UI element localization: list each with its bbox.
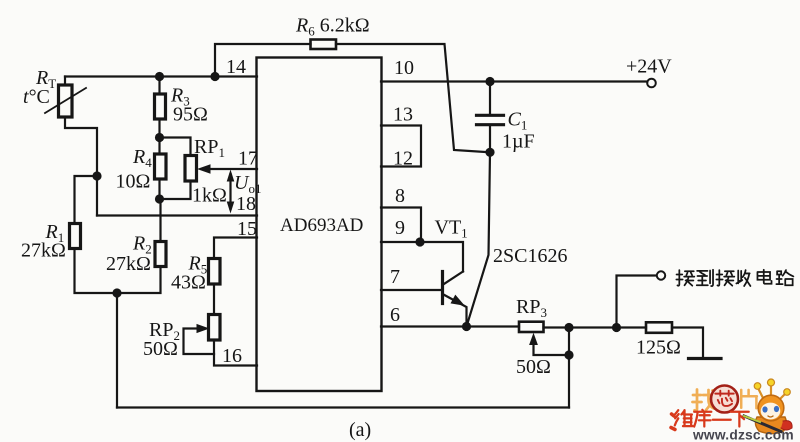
svg-text:9: 9: [395, 217, 405, 239]
resistor R1: [70, 224, 81, 249]
svg-text:50Ω: 50Ω: [516, 356, 551, 378]
svg-text:18: 18: [236, 193, 256, 215]
watermark 找芯片 seal: [693, 386, 757, 413]
node junction R1 bottom: [112, 288, 121, 297]
wire pin15: [214, 238, 257, 259]
svg-text:10Ω: 10Ω: [116, 171, 151, 193]
svg-text:C1: C1: [508, 109, 528, 133]
potentiometer RP2: [209, 315, 221, 341]
node junction R6 branch: [210, 72, 219, 81]
potentiometer RP1: [160, 138, 191, 156]
svg-text:+24V: +24V: [626, 56, 672, 78]
wire branch to R1: [75, 176, 98, 224]
node junction R3 bottom: [155, 133, 164, 142]
svg-text:1µF: 1µF: [502, 131, 535, 153]
svg-text:AD693AD: AD693AD: [280, 215, 363, 236]
wire R5 to RP2: [213, 284, 215, 315]
resistor R4: [158, 138, 160, 155]
wire pin10 +24V rail: [381, 80, 647, 82]
svg-text:125Ω: 125Ω: [636, 337, 681, 359]
thermistor RT: [64, 77, 66, 86]
RP3 wiper arrow: [534, 342, 570, 355]
svg-text:95Ω: 95Ω: [173, 104, 208, 126]
svg-text:t°C: t°C: [23, 86, 50, 108]
wire pin6: [381, 325, 519, 327]
svg-text:12: 12: [393, 148, 413, 170]
wire R1 bottom to R2 bottom: [75, 249, 161, 294]
resistor R6: [311, 40, 337, 50]
wire pin17 with wiper arrow: [208, 168, 257, 170]
svg-text:7: 7: [390, 266, 400, 288]
svg-text:14: 14: [226, 56, 246, 78]
svg-text:RP1: RP1: [194, 136, 225, 160]
resistor R2: [155, 242, 166, 267]
svg-text:6: 6: [390, 304, 400, 326]
svg-text:13: 13: [393, 104, 413, 126]
terminal +24V: [647, 79, 656, 88]
resistor 125Ω: [646, 322, 672, 333]
label 接到接收电路 (connect to receiver circuit), hand-drawn glyphs: [676, 270, 793, 286]
node junction RP3 right: [564, 323, 573, 332]
wire pin14 rail: [65, 75, 257, 77]
wire RP2 wiper: [184, 329, 215, 355]
node junction pin8/pin9: [415, 237, 424, 246]
wire R6 branch up: [215, 44, 311, 77]
capacitor C1: [489, 82, 491, 114]
svg-text:17: 17: [238, 148, 258, 170]
wire RP3 right: [544, 326, 647, 328]
terminal output: [657, 271, 665, 279]
svg-text:(a): (a): [349, 419, 371, 441]
node junction left chain: [92, 171, 101, 180]
resistor R3: [158, 77, 160, 95]
wire C1 bottom to emitter node: [467, 152, 491, 326]
node junction C1 bottom: [485, 148, 494, 157]
wire output branch: [617, 276, 657, 328]
svg-text:1kΩ: 1kΩ: [192, 185, 227, 207]
wire RP2 to pin16: [214, 340, 257, 366]
wire wiper to bottom rail: [568, 328, 570, 408]
svg-text:15: 15: [237, 218, 257, 240]
wire R2 top crossing: [159, 199, 161, 242]
transistor VT1: [444, 272, 463, 285]
node junction R3 top: [155, 72, 164, 81]
svg-text:27kΩ: 27kΩ: [106, 253, 151, 275]
node Uo1 arrow: [229, 174, 231, 209]
node junction C1 top: [485, 77, 494, 86]
svg-text:16: 16: [222, 345, 242, 367]
potentiometer RP3: [519, 322, 544, 332]
wire pin13-12 loop: [381, 126, 421, 167]
svg-text:RP3: RP3: [516, 296, 547, 320]
node junction R4 bottom: [155, 194, 164, 203]
ground: [689, 357, 722, 360]
wire R6 right to C1 bottom: [336, 44, 490, 152]
watermark mascot: [744, 379, 792, 434]
svg-text:VT1: VT1: [435, 217, 468, 241]
wire 125Ω to ground: [672, 328, 703, 359]
svg-text:R4: R4: [132, 146, 152, 170]
svg-text:8: 8: [395, 185, 405, 207]
svg-text:27kΩ: 27kΩ: [21, 240, 66, 262]
wire pin18: [97, 214, 257, 216]
node junction emitter: [462, 322, 471, 331]
wire bottom rail: [117, 406, 569, 408]
svg-text:2SC1626: 2SC1626: [493, 245, 567, 267]
wire pin8 loop: [381, 208, 421, 243]
wire pin7 base: [381, 289, 442, 291]
node junction output branch: [612, 323, 621, 332]
svg-text:50Ω: 50Ω: [143, 338, 178, 360]
wire down to bottom rail: [116, 293, 118, 408]
svg-text:43Ω: 43Ω: [171, 272, 206, 294]
node junction wiper: [564, 350, 573, 359]
svg-text:10: 10: [394, 57, 414, 79]
resistor R5: [209, 259, 221, 285]
svg-text:www.dzsc.com: www.dzsc.com: [692, 428, 794, 442]
watermark 维库一下: [671, 410, 749, 430]
op-amp U1 AD693AD IC body: [257, 58, 382, 392]
wire pin9 to collector: [381, 242, 463, 272]
wire RT bottom to left chain: [65, 117, 97, 216]
svg-text:R6 6.2kΩ: R6 6.2kΩ: [295, 15, 370, 39]
